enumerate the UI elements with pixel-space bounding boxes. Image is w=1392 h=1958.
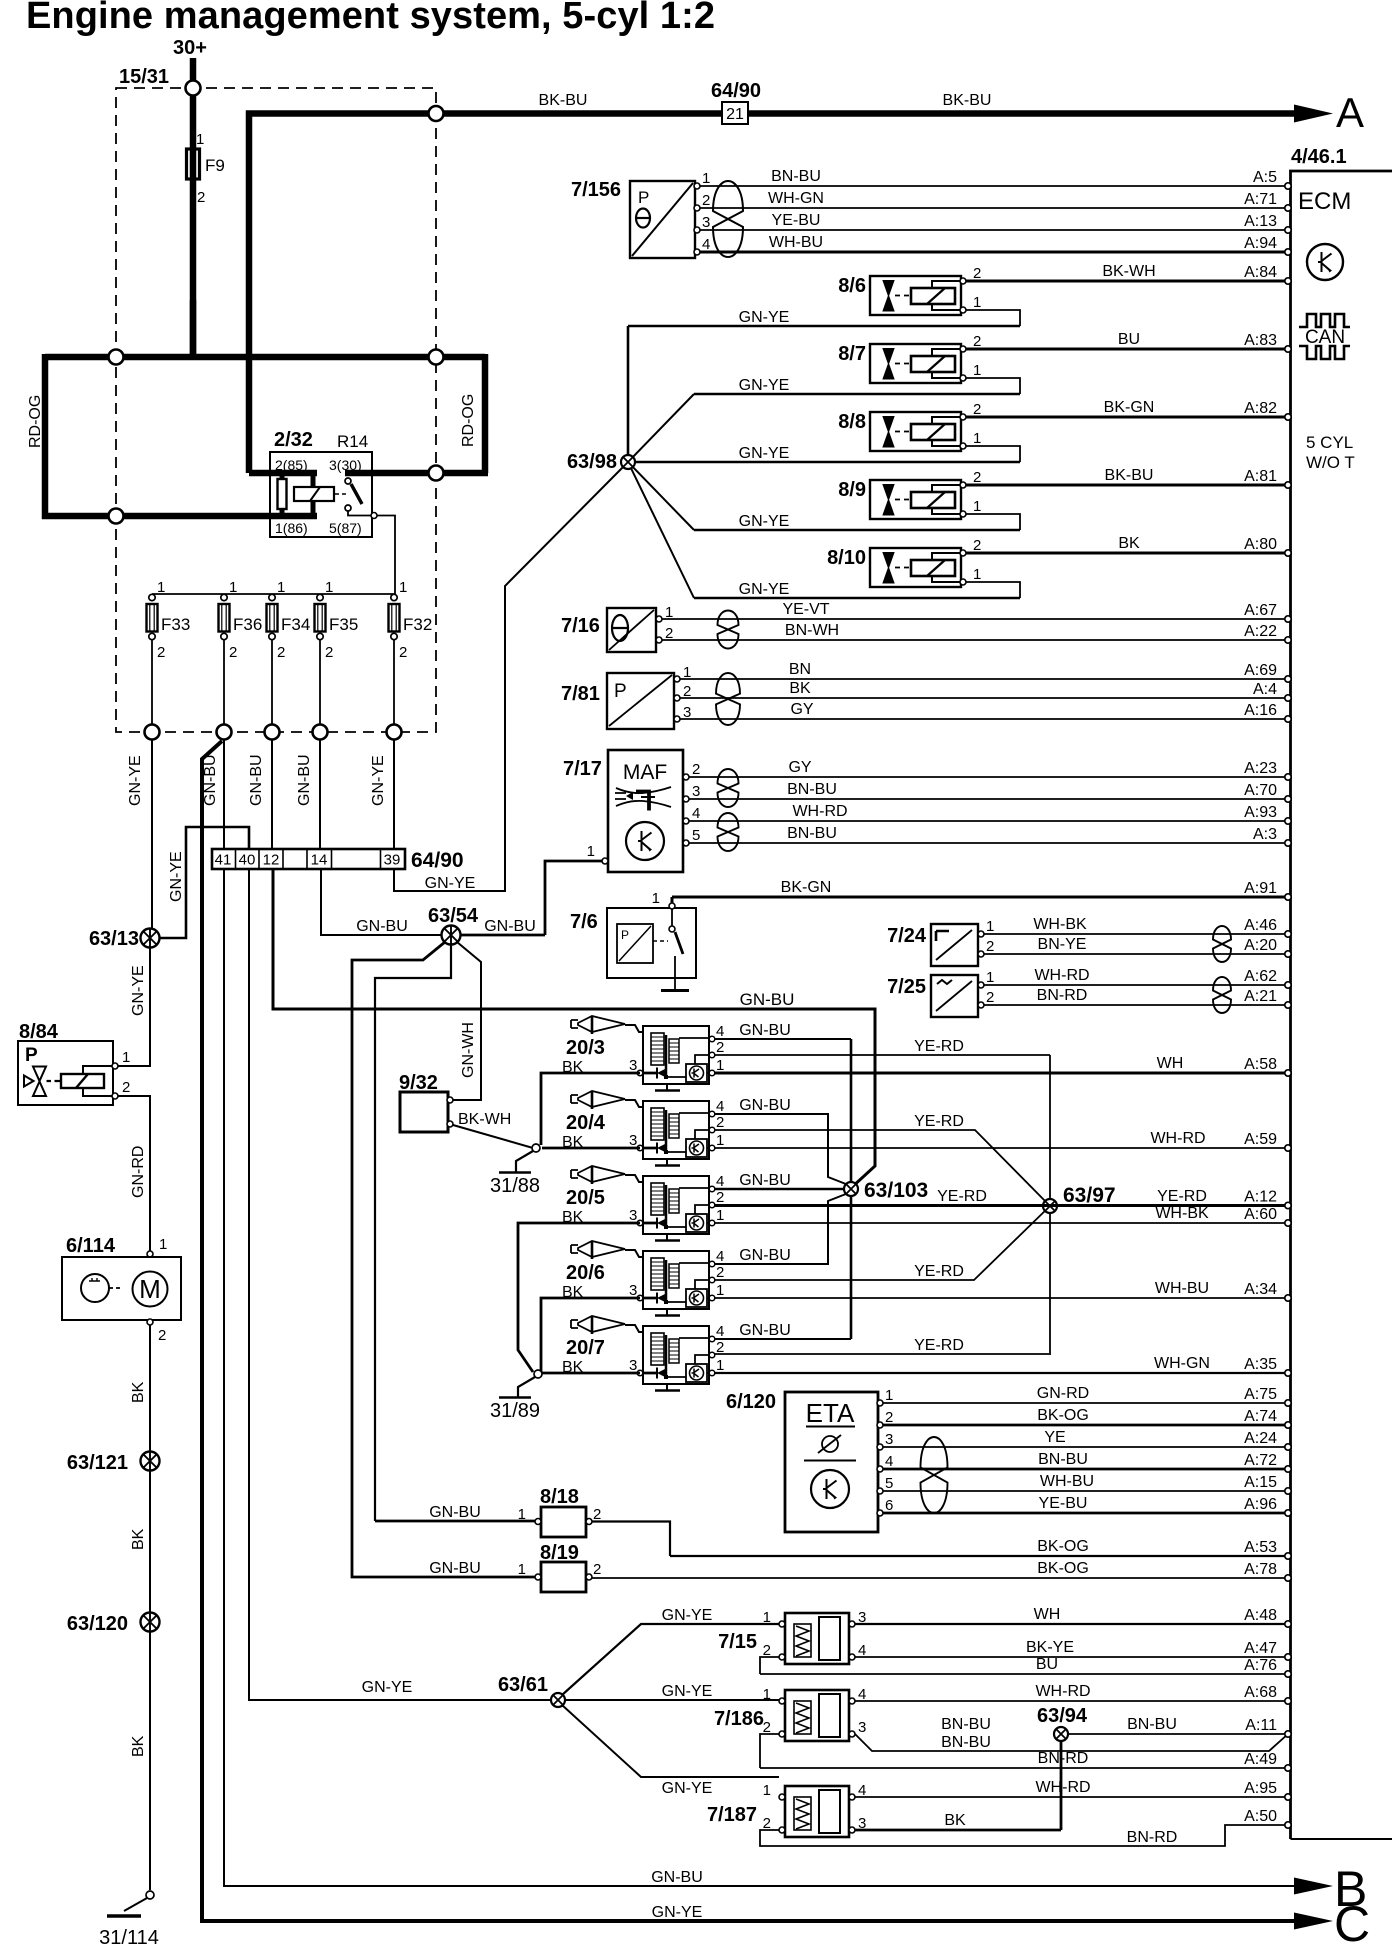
wire F36 GN-BU thick branch bbox=[202, 741, 1296, 1921]
connector 64/90 bar bbox=[212, 849, 464, 872]
wire WH-RD to ECM A:59 bbox=[714, 1130, 1291, 1151]
wire YE-RD 20/7 pin2 bbox=[714, 1353, 1049, 1355]
svg-text:BK-WH: BK-WH bbox=[1102, 263, 1155, 280]
svg-text:GN-YE: GN-YE bbox=[739, 513, 790, 530]
svg-text:3: 3 bbox=[629, 1132, 637, 1149]
svg-text:63/98: 63/98 bbox=[567, 451, 617, 473]
svg-text:P: P bbox=[25, 1045, 38, 1066]
wire BN-RD 7/187 pin2 to A:50 bbox=[760, 1808, 1291, 1846]
svg-text:BK-WH: BK-WH bbox=[458, 1111, 511, 1128]
sensor 7/81 bbox=[561, 664, 691, 729]
wire BN-BU to ECM A:70 bbox=[689, 781, 1291, 802]
wire BK 6/114 to 63/121 bbox=[149, 1325, 151, 1452]
svg-text:YE-RD: YE-RD bbox=[914, 1038, 964, 1055]
svg-text:GN-YE: GN-YE bbox=[662, 1607, 713, 1624]
sensor 7/15 bbox=[718, 1609, 866, 1664]
node 63/103 bbox=[844, 1182, 858, 1196]
svg-text:1: 1 bbox=[652, 890, 660, 907]
svg-text:YE-BU: YE-BU bbox=[772, 212, 821, 229]
svg-text:4: 4 bbox=[692, 805, 700, 822]
ignition coil 20/7 bbox=[562, 1316, 724, 1391]
svg-text:BK: BK bbox=[944, 1812, 966, 1829]
svg-text:12: 12 bbox=[263, 852, 280, 869]
svg-text:1(86): 1(86) bbox=[275, 520, 308, 536]
wire WH-BK to ECM A:60 bbox=[714, 1205, 1291, 1226]
injector 8/10 bbox=[827, 537, 981, 587]
svg-text:BK-GN: BK-GN bbox=[781, 879, 832, 896]
svg-text:A:74: A:74 bbox=[1244, 1408, 1277, 1425]
svg-text:3: 3 bbox=[629, 1057, 637, 1074]
svg-text:GN-RD: GN-RD bbox=[1037, 1385, 1089, 1402]
svg-text:GN-YE: GN-YE bbox=[739, 581, 790, 598]
sensor 7/156 bbox=[571, 170, 710, 258]
ignition coil 20/5 bbox=[562, 1166, 724, 1241]
sensor 7/16 bbox=[561, 604, 673, 652]
wire 8/18 feed horizontal bbox=[375, 1520, 535, 1523]
wire BK 63/120 to 31/114 bbox=[149, 1632, 151, 1891]
svg-text:7/15: 7/15 bbox=[718, 1631, 757, 1653]
svg-text:Engine management system, 5-cy: Engine management system, 5-cyl 1:2 bbox=[26, 0, 715, 37]
connector 8/19 bbox=[429, 1542, 601, 1592]
svg-text:GN-BU: GN-BU bbox=[739, 1322, 791, 1339]
wire BK 7/187 pin3 to 63/94 bbox=[855, 1829, 1061, 1832]
svg-text:4: 4 bbox=[716, 1323, 724, 1340]
wire GN-YE return 8/10 bbox=[694, 581, 1020, 598]
svg-text:BK-GN: BK-GN bbox=[1104, 399, 1155, 416]
wire F9 to RD-OG bus bbox=[190, 300, 197, 357]
twisted pair 7/24 bbox=[1213, 926, 1231, 962]
svg-text:15/31: 15/31 bbox=[119, 66, 169, 88]
svg-text:RD-OG: RD-OG bbox=[460, 394, 477, 447]
wire YE-RD 20/4 pin2 bbox=[714, 1130, 1050, 1206]
svg-text:2(85): 2(85) bbox=[275, 457, 308, 473]
wire GN-BU 20/5 pin4 bbox=[714, 1188, 844, 1191]
wire 63/61 to 7/186 bbox=[565, 1699, 779, 1701]
svg-text:A:13: A:13 bbox=[1244, 213, 1277, 230]
wire GN-BU 20/6 pin4 bbox=[714, 1192, 851, 1264]
svg-text:1: 1 bbox=[159, 1236, 167, 1253]
svg-text:1: 1 bbox=[763, 1782, 771, 1799]
wire BK to ECM A:4 bbox=[680, 680, 1291, 701]
svg-text:GN-YE: GN-YE bbox=[168, 851, 185, 902]
svg-text:BN-BU: BN-BU bbox=[941, 1716, 991, 1733]
svg-text:3: 3 bbox=[885, 1431, 893, 1448]
twisted pair 7/25 bbox=[1213, 977, 1231, 1013]
svg-text:21: 21 bbox=[726, 106, 744, 123]
pump motor 6/114 bbox=[62, 1235, 181, 1344]
svg-text:BK: BK bbox=[789, 680, 811, 697]
node 63/97 bbox=[1043, 1199, 1057, 1213]
svg-text:GN-BU: GN-BU bbox=[296, 754, 313, 806]
wire WH-RD to ECM A:95 bbox=[855, 1779, 1291, 1800]
svg-text:14: 14 bbox=[311, 852, 328, 869]
svg-text:1: 1 bbox=[973, 498, 981, 515]
wire F32 to cell 39 bbox=[393, 740, 395, 850]
svg-text:F9: F9 bbox=[205, 156, 225, 175]
wire YE-VT to ECM A:67 bbox=[662, 601, 1291, 622]
node 63/13 bbox=[141, 929, 160, 948]
svg-text:41: 41 bbox=[215, 852, 232, 869]
svg-text:F34: F34 bbox=[281, 615, 310, 634]
svg-text:A:78: A:78 bbox=[1244, 1561, 1277, 1578]
svg-text:1: 1 bbox=[702, 170, 710, 187]
svg-text:2: 2 bbox=[325, 644, 333, 661]
svg-text:63/54: 63/54 bbox=[428, 905, 479, 927]
svg-text:GN-BU: GN-BU bbox=[651, 1869, 703, 1886]
svg-text:20/3: 20/3 bbox=[566, 1037, 605, 1059]
svg-text:P: P bbox=[614, 681, 627, 702]
twisted pair MAF 2-3 bbox=[718, 769, 739, 807]
svg-text:BK: BK bbox=[130, 1735, 147, 1757]
svg-text:2: 2 bbox=[277, 644, 285, 661]
svg-text:8/84: 8/84 bbox=[19, 1021, 59, 1043]
svg-text:YE-BU: YE-BU bbox=[1039, 1495, 1088, 1512]
svg-text:7/24: 7/24 bbox=[887, 925, 927, 947]
wire GN-BU 20/4 pin4 bbox=[714, 1114, 851, 1186]
wire GN-BU vertical 63/103 bbox=[850, 1039, 853, 1339]
svg-text:GY: GY bbox=[788, 759, 811, 776]
svg-text:4: 4 bbox=[885, 1453, 893, 1470]
svg-text:WH: WH bbox=[1034, 1606, 1061, 1623]
wire 63/61 to 7/187 bbox=[562, 1705, 779, 1777]
svg-text:31/88: 31/88 bbox=[490, 1175, 540, 1197]
wire GN-RD 8/84 to 6/114 bbox=[118, 1096, 150, 1254]
svg-text:WH: WH bbox=[1157, 1055, 1184, 1072]
wire GN-WH 63/54 to 9/32 bbox=[451, 942, 481, 1100]
wire BK-WH 9/32 to junction bbox=[453, 1125, 533, 1148]
node 63/54 bbox=[442, 926, 461, 945]
svg-text:YE-RD: YE-RD bbox=[914, 1113, 964, 1130]
svg-text:4: 4 bbox=[716, 1173, 724, 1190]
wire MAF pin1 to 63/54 bbox=[545, 861, 602, 935]
svg-text:39: 39 bbox=[384, 852, 401, 869]
svg-text:8/18: 8/18 bbox=[540, 1486, 579, 1508]
svg-text:63/97: 63/97 bbox=[1063, 1184, 1116, 1207]
svg-text:1: 1 bbox=[973, 294, 981, 311]
svg-text:1: 1 bbox=[277, 579, 285, 596]
svg-text:BN-BU: BN-BU bbox=[787, 781, 837, 798]
svg-text:A:21: A:21 bbox=[1244, 988, 1277, 1005]
svg-text:GN-BU: GN-BU bbox=[739, 1247, 791, 1264]
wire BK 20/3 pin3 bbox=[541, 1073, 640, 1145]
wire 63/94 vertical to BK bbox=[1060, 1741, 1063, 1830]
svg-text:BN-RD: BN-RD bbox=[1037, 987, 1088, 1004]
svg-text:7/187: 7/187 bbox=[707, 1804, 757, 1826]
wire BK-WH to ECM A:84 bbox=[966, 263, 1291, 284]
wire 63/61 to 7/15 bbox=[562, 1624, 779, 1695]
node 63/94 bbox=[1054, 1727, 1068, 1741]
svg-text:A:48: A:48 bbox=[1244, 1607, 1277, 1624]
wire YE-RD 20/6 pin2 bbox=[714, 1206, 1050, 1280]
svg-text:3: 3 bbox=[702, 214, 710, 231]
svg-text:63/94: 63/94 bbox=[1037, 1705, 1088, 1727]
wire F35 to cell 14 bbox=[319, 740, 321, 850]
svg-text:20/5: 20/5 bbox=[566, 1187, 605, 1209]
svg-text:63/121: 63/121 bbox=[67, 1452, 128, 1474]
wire WH-BK to ECM A:46 bbox=[984, 916, 1291, 937]
wire BN-RD 7/186 pin2 bbox=[760, 1734, 779, 1768]
svg-text:BK-OG: BK-OG bbox=[1037, 1560, 1089, 1577]
svg-text:30+: 30+ bbox=[173, 37, 207, 59]
wire GN-BU 20/7 pin4 bbox=[714, 1338, 851, 1340]
svg-text:A:67: A:67 bbox=[1244, 602, 1277, 619]
ECM CAN symbol bbox=[1299, 314, 1350, 359]
svg-text:2: 2 bbox=[885, 1409, 893, 1426]
svg-text:GN-BU: GN-BU bbox=[248, 754, 265, 806]
svg-text:GN-YE: GN-YE bbox=[739, 377, 790, 394]
svg-text:7/17: 7/17 bbox=[563, 758, 602, 780]
wire GN-BU 20/3 pin4 bbox=[714, 1038, 851, 1040]
wire 7/6 pin1 up bbox=[671, 897, 674, 903]
wire GY to ECM A:23 bbox=[689, 759, 1291, 780]
svg-text:P: P bbox=[638, 188, 649, 207]
ECU 4/46.1 ECM bbox=[1291, 146, 1392, 1839]
wire YE to ECM A:24 bbox=[883, 1429, 1291, 1450]
wire relay 85 feed bbox=[249, 470, 317, 477]
svg-text:R14: R14 bbox=[337, 432, 368, 451]
wire GN-YE 63/13 to 8/84 bbox=[118, 948, 150, 1067]
twisted pair 6/120 bbox=[921, 1437, 948, 1513]
valve 8/84 bbox=[18, 1021, 130, 1105]
svg-text:A:75: A:75 bbox=[1244, 1386, 1277, 1403]
svg-text:GN-YE: GN-YE bbox=[370, 755, 387, 806]
svg-text:2: 2 bbox=[716, 1039, 724, 1056]
svg-text:5(87): 5(87) bbox=[329, 520, 362, 536]
wire BK to ECM A:80 bbox=[966, 535, 1291, 556]
sensor 7/25 bbox=[887, 969, 994, 1017]
svg-text:2: 2 bbox=[973, 469, 981, 486]
svg-text:WH-BK: WH-BK bbox=[1033, 916, 1087, 933]
svg-text:A: A bbox=[1336, 89, 1364, 136]
node 63/121 bbox=[141, 1452, 160, 1471]
svg-text:A:80: A:80 bbox=[1244, 536, 1277, 553]
svg-text:A:4: A:4 bbox=[1253, 681, 1277, 698]
svg-text:4: 4 bbox=[702, 236, 710, 253]
svg-text:A:47: A:47 bbox=[1244, 1640, 1277, 1657]
svg-text:A:15: A:15 bbox=[1244, 1474, 1277, 1491]
svg-text:A:69: A:69 bbox=[1244, 662, 1277, 679]
wire BK-BU to ECM A:81 bbox=[966, 467, 1291, 488]
wire WH-BU to ECM A:94 bbox=[700, 234, 1291, 255]
svg-text:5: 5 bbox=[692, 827, 700, 844]
svg-text:2: 2 bbox=[973, 537, 981, 554]
svg-text:GN-WH: GN-WH bbox=[460, 1022, 477, 1078]
svg-text:2: 2 bbox=[229, 644, 237, 661]
svg-text:6: 6 bbox=[885, 1497, 893, 1514]
svg-text:2/32: 2/32 bbox=[274, 429, 313, 451]
twisted pair 7/81 bbox=[716, 673, 740, 725]
svg-text:RD-OG: RD-OG bbox=[27, 395, 44, 448]
svg-text:BK-BU: BK-BU bbox=[943, 92, 992, 109]
wire BK-GN to ECM A:91 bbox=[672, 879, 1291, 900]
svg-text:BK-OG: BK-OG bbox=[1037, 1538, 1089, 1555]
svg-text:GN-YE: GN-YE bbox=[739, 309, 790, 326]
svg-text:4: 4 bbox=[716, 1248, 724, 1265]
svg-text:BN: BN bbox=[789, 661, 811, 678]
svg-text:A:35: A:35 bbox=[1244, 1356, 1277, 1373]
wire GN-RD to ECM A:75 bbox=[883, 1385, 1291, 1406]
svg-text:WH-BU: WH-BU bbox=[769, 234, 823, 251]
svg-text:3(30): 3(30) bbox=[329, 457, 362, 473]
svg-text:2: 2 bbox=[122, 1079, 130, 1096]
svg-text:A:72: A:72 bbox=[1244, 1452, 1277, 1469]
svg-text:GN-YE: GN-YE bbox=[652, 1904, 703, 1921]
wire RD-OG right drop bbox=[482, 354, 489, 473]
wire YE-BU to ECM A:96 bbox=[883, 1495, 1291, 1516]
svg-text:1: 1 bbox=[518, 1561, 526, 1578]
wire BK-YE to ECM A:47 bbox=[855, 1639, 1291, 1660]
svg-text:2: 2 bbox=[399, 644, 407, 661]
svg-text:7/25: 7/25 bbox=[887, 976, 926, 998]
svg-text:BU: BU bbox=[1036, 1656, 1058, 1673]
svg-text:BU: BU bbox=[1118, 331, 1140, 348]
junction circle 30+/15-31 bbox=[186, 81, 201, 96]
injector 8/7 bbox=[838, 333, 981, 383]
wire cell40 GN-YE to 63/61 bbox=[249, 869, 551, 1700]
ignition coil 20/3 bbox=[562, 1016, 724, 1091]
wire BK 20/7 pin3 bbox=[542, 1372, 640, 1375]
svg-text:BK-BU: BK-BU bbox=[1105, 467, 1154, 484]
svg-text:2: 2 bbox=[716, 1189, 724, 1206]
wire BN-BU to ECM A:3 bbox=[689, 825, 1291, 846]
wire BK 20/6 pin3 bbox=[541, 1298, 640, 1372]
svg-text:ECM: ECM bbox=[1298, 188, 1351, 215]
wire 63/54 to MAF pin1 bbox=[460, 934, 545, 937]
svg-text:GN-BU: GN-BU bbox=[429, 1560, 481, 1577]
svg-text:A:60: A:60 bbox=[1244, 1206, 1277, 1223]
svg-text:4/46.1: 4/46.1 bbox=[1291, 146, 1347, 168]
svg-text:1: 1 bbox=[587, 843, 595, 860]
svg-text:A:94: A:94 bbox=[1244, 235, 1277, 252]
wire fuse rail bbox=[152, 593, 395, 595]
ground 31/114 bbox=[99, 1891, 159, 1949]
arrow A bbox=[1294, 105, 1333, 123]
svg-text:6/114: 6/114 bbox=[66, 1235, 116, 1257]
wire GN-YE injector trunk bbox=[627, 326, 630, 462]
svg-text:WH-GN: WH-GN bbox=[1154, 1355, 1210, 1372]
wire GN-YE return 8/7 bbox=[694, 377, 1020, 394]
sensor 7/187 bbox=[707, 1782, 866, 1837]
svg-text:A:12: A:12 bbox=[1244, 1189, 1277, 1206]
svg-text:1: 1 bbox=[518, 1506, 526, 1523]
svg-text:BN-BU: BN-BU bbox=[787, 825, 837, 842]
svg-text:2: 2 bbox=[593, 1561, 601, 1578]
svg-text:8/7: 8/7 bbox=[838, 343, 866, 365]
sensor 7/17 MAF bbox=[563, 750, 700, 872]
svg-text:2: 2 bbox=[702, 192, 710, 209]
injector 8/9 bbox=[838, 469, 981, 519]
svg-text:YE: YE bbox=[1044, 1429, 1065, 1446]
injector 8/6 bbox=[838, 265, 981, 315]
svg-text:BN-BU: BN-BU bbox=[1127, 1716, 1177, 1733]
wire F9 feed bbox=[190, 96, 197, 358]
svg-text:7/6: 7/6 bbox=[570, 911, 598, 933]
wire 63/13 to cell 40 bbox=[156, 827, 249, 938]
wire BN-YE to ECM A:20 bbox=[984, 936, 1291, 957]
arrow B bbox=[1294, 1878, 1333, 1895]
svg-text:F35: F35 bbox=[329, 615, 358, 634]
svg-text:8/10: 8/10 bbox=[827, 547, 866, 569]
svg-text:GN-BU: GN-BU bbox=[356, 918, 408, 935]
svg-text:BN-BU: BN-BU bbox=[1038, 1451, 1088, 1468]
svg-text:64/90: 64/90 bbox=[411, 849, 464, 872]
svg-text:B: B bbox=[1334, 1861, 1367, 1917]
svg-text:BK-BU: BK-BU bbox=[539, 92, 588, 109]
junction circles on RD-OG bus bbox=[109, 350, 124, 365]
wire RD-OG left drop bbox=[42, 354, 49, 519]
svg-text:63/61: 63/61 bbox=[498, 1674, 548, 1696]
svg-text:CAN: CAN bbox=[1305, 327, 1345, 348]
svg-text:2: 2 bbox=[157, 644, 165, 661]
svg-text:2: 2 bbox=[973, 401, 981, 418]
svg-text:3: 3 bbox=[858, 1719, 866, 1736]
svg-text:MAF: MAF bbox=[623, 761, 667, 784]
wire WH-BU to ECM A:34 bbox=[714, 1280, 1291, 1301]
wire GN-YE return 8/8 bbox=[628, 445, 1020, 462]
svg-text:1: 1 bbox=[973, 362, 981, 379]
svg-text:A:68: A:68 bbox=[1244, 1684, 1277, 1701]
svg-text:2: 2 bbox=[973, 265, 981, 282]
wire F34 to cell 12 bbox=[271, 740, 273, 850]
wire 63/54 to 8/18 bbox=[375, 945, 451, 1522]
wire BN-RD to ECM A:49 bbox=[760, 1750, 1291, 1771]
svg-text:A:53: A:53 bbox=[1244, 1539, 1277, 1556]
svg-text:F36: F36 bbox=[233, 615, 262, 634]
svg-text:YE-RD: YE-RD bbox=[937, 1188, 987, 1205]
wire cell41 GN-BU to B bbox=[224, 869, 1296, 1886]
svg-text:WH-BU: WH-BU bbox=[1040, 1473, 1094, 1490]
svg-text:GN-RD: GN-RD bbox=[130, 1146, 147, 1198]
svg-text:WH-BK: WH-BK bbox=[1155, 1205, 1209, 1222]
svg-text:A:24: A:24 bbox=[1244, 1430, 1277, 1447]
wire RD-OG horizontal bus bbox=[45, 354, 485, 361]
wire YE-BU to ECM A:13 bbox=[700, 212, 1291, 233]
wire BN-WH to ECM A:22 bbox=[662, 622, 1291, 643]
svg-text:BK: BK bbox=[1118, 535, 1140, 552]
svg-text:GN-BU: GN-BU bbox=[739, 1097, 791, 1114]
wire BK 20/4 pin3 bbox=[542, 1147, 640, 1150]
svg-text:BK: BK bbox=[130, 1528, 147, 1550]
svg-text:1: 1 bbox=[763, 1609, 771, 1626]
svg-text:YE-RD: YE-RD bbox=[914, 1337, 964, 1354]
wire GY to ECM A:16 bbox=[680, 701, 1291, 722]
wire 8/18 pin2 to A:53 bbox=[592, 1522, 670, 1557]
svg-text:63/120: 63/120 bbox=[67, 1613, 128, 1635]
svg-text:7/156: 7/156 bbox=[571, 179, 621, 201]
svg-text:GN-BU: GN-BU bbox=[740, 990, 795, 1009]
svg-text:WH-RD: WH-RD bbox=[1150, 1130, 1205, 1147]
svg-text:2: 2 bbox=[158, 1327, 166, 1344]
injector 8/8 bbox=[838, 401, 981, 451]
svg-text:WH-BU: WH-BU bbox=[1155, 1280, 1209, 1297]
throttle unit 6/120 ETA bbox=[726, 1387, 893, 1532]
arrow C bbox=[1294, 1913, 1333, 1930]
svg-text:A:62: A:62 bbox=[1244, 968, 1277, 985]
wire A:12 to ECM A:12 bbox=[714, 1189, 1291, 1209]
svg-text:WH-RD: WH-RD bbox=[1035, 1779, 1090, 1796]
svg-text:7/81: 7/81 bbox=[561, 683, 600, 705]
svg-text:1: 1 bbox=[763, 1686, 771, 1703]
svg-text:F32: F32 bbox=[403, 615, 432, 634]
svg-text:GN-YE: GN-YE bbox=[662, 1683, 713, 1700]
wire diagonals to 63/98 bbox=[628, 394, 694, 598]
svg-text:GN-YE: GN-YE bbox=[362, 1679, 413, 1696]
svg-text:BN-WH: BN-WH bbox=[785, 622, 839, 639]
svg-text:YE-RD: YE-RD bbox=[1157, 1188, 1207, 1205]
svg-text:3: 3 bbox=[629, 1282, 637, 1299]
svg-text:P: P bbox=[621, 928, 629, 942]
ECM K symbol bbox=[1307, 244, 1343, 280]
